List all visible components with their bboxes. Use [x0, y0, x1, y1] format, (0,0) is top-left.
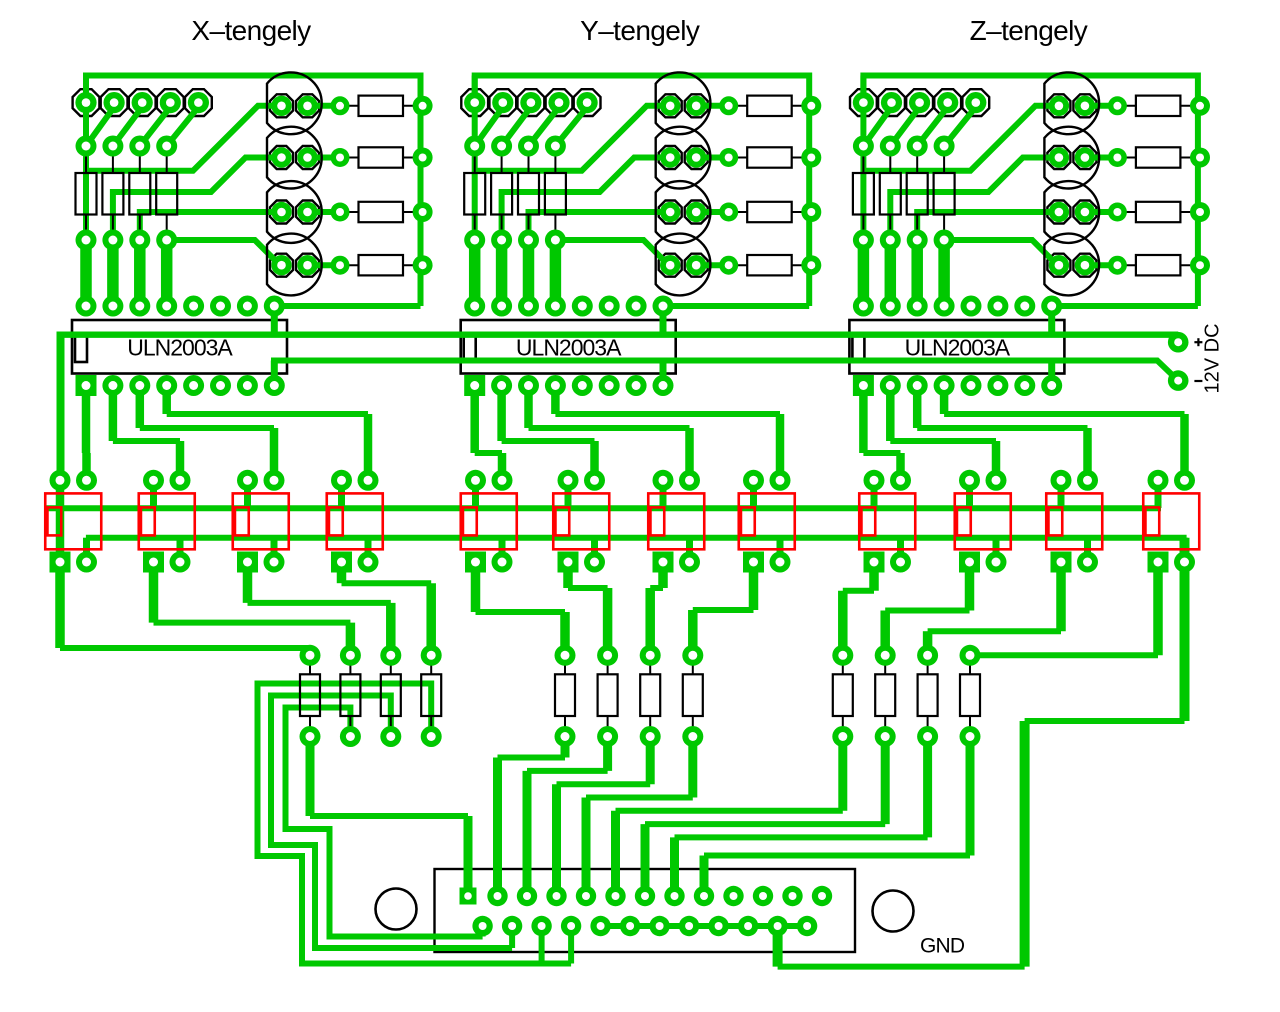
svg-text:GND: GND [920, 935, 965, 958]
svg-text:ULN2003A: ULN2003A [905, 335, 1011, 361]
svg-text:Z–tengely: Z–tengely [970, 15, 1088, 46]
svg-text:Y–tengely: Y–tengely [580, 15, 700, 46]
svg-text:ULN2003A: ULN2003A [127, 335, 233, 361]
svg-text:ULN2003A: ULN2003A [516, 335, 622, 361]
svg-text:12V DC: 12V DC [1202, 323, 1224, 393]
svg-text:X–tengely: X–tengely [191, 15, 311, 46]
